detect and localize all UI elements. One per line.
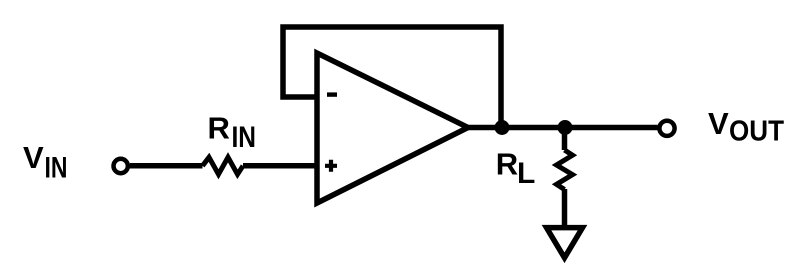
wire RL to ground: [562, 189, 568, 227]
svg-text:R: R: [496, 147, 518, 182]
wire input to RIN: [130, 163, 203, 169]
svg-text:IN: IN: [45, 152, 68, 185]
label VIN: [23, 140, 68, 185]
op-amp non-inverting input plus sign: [325, 160, 337, 172]
svg-text:V: V: [23, 140, 44, 175]
wire feedback loop (output to inverting input): [283, 27, 501, 130]
wire output: [466, 125, 658, 131]
resistor RIN: [203, 157, 244, 174]
label VOUT: [708, 106, 784, 148]
terminal VIN: [114, 159, 128, 173]
label RL: [496, 147, 536, 190]
svg-text:IN: IN: [232, 121, 257, 154]
label RIN: [208, 111, 257, 155]
ground: [547, 228, 583, 258]
terminal VOUT: [659, 121, 674, 136]
svg-text:V: V: [708, 106, 729, 141]
node output junction: [495, 120, 510, 135]
svg-text:OUT: OUT: [729, 116, 784, 148]
node RL junction: [558, 120, 573, 135]
wire junction to RL: [562, 128, 568, 151]
svg-text:L: L: [517, 157, 535, 190]
op-amp U1: [317, 53, 468, 203]
op-amp inverting input minus sign: [327, 92, 337, 96]
wire RIN to op-amp plus input: [243, 163, 316, 169]
svg-text:R: R: [208, 111, 230, 146]
resistor RL: [557, 150, 573, 190]
